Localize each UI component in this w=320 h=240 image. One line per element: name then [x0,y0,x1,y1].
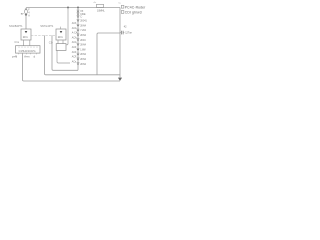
svg-text:SN1/B4P71: SN1/B4P71 [9,24,23,28]
svg-text:2KN4: 2KN4 [80,35,86,37]
ground arrow [118,78,122,81]
svg-text:2K041: 2K041 [80,21,87,23]
svg-text:1F1: 1F1 [58,35,64,39]
svg-text:1F1: 1F1 [23,35,29,39]
svg-text:d: d [34,55,36,58]
wire U1 leg a [23,40,25,46]
svg-text:ta: ta [119,1,122,4]
wire U1 leg b [29,40,31,46]
diode ladder value labels [80,11,87,66]
pin labels right of X1 [28,9,30,17]
label C1s [14,40,19,44]
svg-text:ACA: ACA [72,27,77,30]
svg-text:2KN4: 2KN4 [80,25,86,27]
label C1a [49,40,53,44]
svg-text:4: 4 [28,12,30,14]
svg-text:2KN4: 2KN4 [80,64,86,66]
wire feedback x97 [97,33,120,75]
wire A1 to bottom rail [23,53,121,81]
header label U2 [40,24,54,28]
svg-text:A-CA: A-CA [72,32,78,35]
IC U2 [56,27,66,40]
svg-text:ACs: ACs [72,60,77,63]
label ta above right rail [119,1,122,4]
svg-text:ACA: ACA [72,36,77,39]
wire U2 leg b [62,40,64,44]
IC U1 [21,29,31,40]
svg-text:ACF: ACF [72,46,77,49]
svg-text:C·: C· [80,17,83,19]
inductor L1 on top rail [94,2,104,8]
note text block top right [121,5,146,14]
svg-text:7.204: 7.204 [80,30,86,32]
oscillator X1 top-left [25,9,28,29]
svg-text:C1r: C1r [49,40,53,44]
svg-text:2KN4: 2KN4 [80,54,86,56]
svg-text:A: A [28,14,30,17]
svg-text:ACA: ACA [72,41,77,44]
svg-text:12Tue: 12Tue [125,32,132,35]
label C2 value [125,32,132,35]
svg-text:2KN4: 2KN4 [80,59,86,61]
svg-text:AC3: AC3 [72,22,77,25]
svg-text:A+m: A+m [24,55,29,58]
label L1 value [97,10,105,13]
svg-text:SN7G4P71: SN7G4P71 [40,24,54,28]
pin labels under A1 [12,55,35,58]
wire tap x52 down to ladder bottom [52,36,78,71]
wire diode ladder backbone [77,8,79,71]
wire U1 output dashed [31,35,56,37]
svg-text:PC4C-Ruder: PC4C-Ruder [125,5,146,9]
svg-text:C1s: C1s [14,40,19,44]
svg-text:sv: sv [21,12,24,15]
module A1 [16,46,41,55]
svg-text:p+M: p+M [12,55,17,58]
svg-text:CDI gh/w3: CDI gh/w3 [125,11,142,15]
junction node at top rail x68 [67,7,69,9]
label C2 designator [124,25,127,28]
svg-text:10MHL: 10MHL [97,10,105,13]
wire tap x44.5 down to net row y75 [45,36,121,75]
module A2 [56,44,66,51]
svg-text:2KN4: 2KN4 [80,45,86,47]
wire U2 leg a [57,40,59,44]
svg-text:CKIE: CKIE [80,14,86,16]
capacitor C2 at node [120,31,124,35]
header label U1 [9,24,23,28]
wire right rail x120 [119,8,121,78]
diode ladder D1-D13 [77,10,80,65]
svg-text:XX: XX [80,11,84,13]
diode ladder node labels [72,22,78,63]
junction node at top rail x78 [77,7,79,9]
wire top rail [26,8,120,10]
svg-text:C1HL1F1C1Hs: C1HL1F1C1Hs [19,50,37,53]
svg-text:1.8W: 1.8W [80,49,86,51]
wire A2 left leg down x57 [57,50,70,63]
wire from top rail down x68 to A2 [66,8,68,45]
label SW left of X1 [21,12,24,15]
svg-text:42: 42 [124,25,127,28]
svg-text:ACF: ACF [72,56,77,59]
svg-text:ACF: ACF [72,51,77,54]
svg-text:F: F [28,9,30,11]
svg-text:2K04: 2K04 [80,40,86,42]
